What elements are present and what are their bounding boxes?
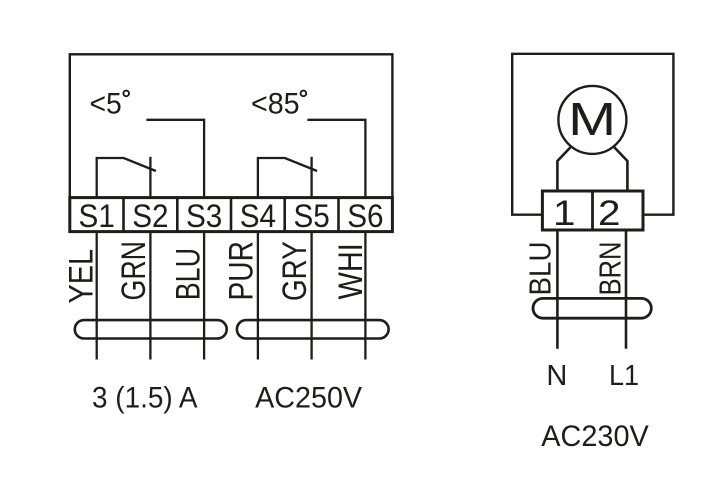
svg-text:N: N xyxy=(546,360,567,392)
wire below terminal 1 xyxy=(556,230,559,349)
svg-text:S3: S3 xyxy=(186,198,222,234)
svg-text:1: 1 xyxy=(553,194,576,233)
cable sheath (mains) xyxy=(533,298,651,318)
wire below terminal 2 xyxy=(625,230,628,349)
actuator enclosure box (motor unit) xyxy=(512,54,673,215)
svg-text:S4: S4 xyxy=(240,198,276,234)
wire from <5 switch contact to S3 xyxy=(146,120,204,198)
enclosure box (auxiliary switch unit) xyxy=(70,54,393,197)
wire S5 stub xyxy=(310,157,312,198)
terminal block 1-2 xyxy=(542,191,643,230)
wire motor to terminal 2 xyxy=(613,146,627,191)
svg-text:AC250V: AC250V xyxy=(255,382,362,415)
svg-text:AC230V: AC230V xyxy=(541,420,649,453)
switch S1-S2 (auxiliary switch <5) xyxy=(97,158,156,198)
wire motor to terminal 1 xyxy=(557,146,571,191)
svg-text:GRY: GRY xyxy=(276,241,314,301)
switch S4-S5 (auxiliary switch <85) xyxy=(258,158,317,198)
wire below S3 xyxy=(203,232,205,360)
svg-text:<5: <5 xyxy=(90,88,122,121)
svg-text:S1: S1 xyxy=(79,198,115,234)
terminal strip S1-S6 xyxy=(70,198,393,232)
svg-text:YEL: YEL xyxy=(63,249,101,304)
wire below S6 xyxy=(364,232,366,360)
svg-text:<85: <85 xyxy=(251,88,300,121)
svg-text:S5: S5 xyxy=(293,198,329,234)
svg-text:S6: S6 xyxy=(347,198,383,234)
cable sheath left (S1-S3) xyxy=(75,320,227,338)
cable sheath right (S4-S6) xyxy=(237,320,389,338)
wire S2 stub xyxy=(149,157,151,198)
svg-text:GRN: GRN xyxy=(115,241,153,301)
wire below S2 xyxy=(149,232,151,360)
motor M circle xyxy=(558,86,626,154)
svg-text:BLU: BLU xyxy=(169,248,207,300)
svg-text:2: 2 xyxy=(598,194,621,233)
svg-text:WHI: WHI xyxy=(332,243,370,299)
wire below S1 xyxy=(96,232,98,360)
wire below S4 xyxy=(257,232,259,360)
svg-text:BRN: BRN xyxy=(594,242,628,296)
wire below S5 xyxy=(310,232,312,360)
svg-text:L1: L1 xyxy=(609,360,639,392)
wire from <85 switch contact to S6 xyxy=(307,120,365,198)
svg-text:S2: S2 xyxy=(132,198,168,234)
svg-text:M: M xyxy=(568,93,616,145)
svg-text:PUR: PUR xyxy=(223,241,261,301)
svg-text:BLU: BLU xyxy=(524,242,558,296)
svg-text:3 (1.5) A: 3 (1.5) A xyxy=(92,382,198,415)
